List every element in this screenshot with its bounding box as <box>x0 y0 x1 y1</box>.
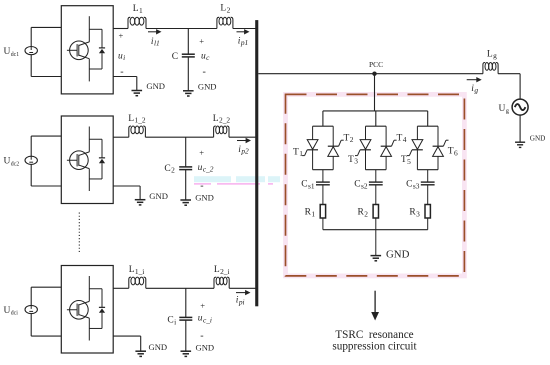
svg-text:T3: T3 <box>348 155 358 166</box>
wire inverter 2 ground stub <box>113 185 140 187</box>
svg-text:GND: GND <box>530 135 546 143</box>
resistor R3 lower lead <box>427 218 429 230</box>
svg-text:TSRC resonance: TSRC resonance <box>335 329 413 341</box>
svg-text:-: - <box>203 67 206 78</box>
wire Udc2 loop left upper <box>30 136 32 156</box>
svg-text:GND: GND <box>149 342 168 352</box>
ground of TSRC <box>371 255 382 257</box>
thyristor T3 <box>365 126 367 139</box>
capacitor Cs1 upper lead <box>322 170 324 182</box>
svg-text:T4: T4 <box>397 133 407 144</box>
inverter module 1 box <box>61 6 113 94</box>
wire Udc1 loop left lower <box>30 55 32 77</box>
svg-text:L2_i: L2_i <box>214 265 230 276</box>
svg-text:R1: R1 <box>305 208 316 219</box>
inductor L1 <box>128 17 130 28</box>
wire inverter 3 ground stub <box>113 335 141 337</box>
wire branch 1 top drop <box>322 111 324 126</box>
wire Udc2 loop left lower <box>30 164 32 186</box>
svg-text:Lg: Lg <box>487 49 497 60</box>
svg-text:Cs1: Cs1 <box>301 180 315 191</box>
svg-text:L1_i: L1_i <box>129 265 145 276</box>
thyristor pair 1 frame top <box>313 125 334 127</box>
arrow current il1 <box>148 31 158 33</box>
svg-text:GND: GND <box>195 192 214 202</box>
wire node 1 mid <box>146 28 217 30</box>
capacitor C lower lead <box>187 57 189 91</box>
diode D1 <box>89 28 102 30</box>
wire inverter 1 output <box>113 28 128 30</box>
capacitor Ci upper lead <box>185 288 187 317</box>
svg-text:T6: T6 <box>448 147 458 158</box>
ground below C <box>183 90 194 92</box>
svg-text:Udc1: Udc1 <box>4 47 20 58</box>
inductor L2 <box>217 17 219 28</box>
svg-text:ip2: ip2 <box>238 145 249 156</box>
wire node 2 mid <box>145 136 213 138</box>
svg-text:T1: T1 <box>293 147 303 158</box>
resistor R2 <box>373 205 378 219</box>
wire branch 2 top drop <box>375 111 377 126</box>
capacitor Ci lower lead <box>185 320 187 351</box>
svg-text:Udci: Udci <box>4 306 19 317</box>
thyristor pair 2 bottom join <box>366 169 387 171</box>
inductor L2_2 <box>214 126 216 137</box>
wire inverter 1 ground stub <box>113 76 137 78</box>
capacitor C2 lower lead <box>185 170 187 200</box>
svg-text:Cs2: Cs2 <box>354 180 368 191</box>
ground of inverter 3 <box>135 350 146 352</box>
svg-text:GND: GND <box>146 81 165 91</box>
thyristor T4 <box>385 126 387 146</box>
capacitor Cs2 lower lead <box>375 185 377 205</box>
svg-text:Ci: Ci <box>167 316 176 327</box>
capacitor Cs3 lower lead <box>427 185 429 205</box>
svg-text:+: + <box>119 30 124 40</box>
svg-text:uc_i: uc_i <box>198 314 212 325</box>
capacitor C upper lead <box>187 29 189 55</box>
wire Ug to ground <box>519 115 521 142</box>
wire Udc1 loop top <box>31 26 61 28</box>
inverter module 3 box <box>61 266 113 354</box>
svg-text:-: - <box>200 331 203 342</box>
thyristor T6 <box>437 126 439 146</box>
transistor Q2 <box>70 151 89 170</box>
svg-text:L2_2: L2_2 <box>213 114 231 125</box>
capacitor Cs1 lower lead <box>322 185 324 205</box>
wire L2 to bus 2 <box>229 136 257 138</box>
thyristor pair 2 frame top <box>366 125 387 127</box>
svg-text:-: - <box>200 180 203 191</box>
transistor Q1 <box>70 41 89 60</box>
inductor Lg <box>483 63 485 74</box>
ground below C2 <box>180 199 191 201</box>
wire Udc2 loop top <box>31 135 61 137</box>
wire Udci loop left lower <box>30 314 32 337</box>
svg-text:GND: GND <box>196 343 215 353</box>
resistor R2 lower lead <box>375 218 377 230</box>
thyristor T1 <box>312 126 314 139</box>
svg-text:+: + <box>199 36 204 46</box>
thyristor T2 <box>332 126 334 146</box>
svg-text:PCC: PCC <box>369 60 383 69</box>
arrow current ig <box>467 79 479 81</box>
TSRC bottom rail <box>323 229 428 231</box>
capacitor C <box>182 53 195 55</box>
diode D3 <box>89 288 102 290</box>
inductor L1_2 <box>129 126 131 137</box>
dashed boundary of TSRC suppression circuit <box>286 94 465 276</box>
svg-text:L2: L2 <box>220 4 230 15</box>
diode D2 <box>89 138 102 140</box>
thyristor pair 1 bottom join <box>313 169 334 171</box>
svg-text:+: + <box>199 148 204 158</box>
wire Udci loop left upper <box>30 287 32 305</box>
resistor R3 <box>425 205 430 219</box>
thyristor pair 3 frame top <box>417 125 438 127</box>
wire Udc1 loop bottom <box>31 76 61 78</box>
wire Udci loop top <box>31 286 61 288</box>
wire Udci loop bottom <box>31 335 61 337</box>
svg-text:uc_2: uc_2 <box>198 163 214 174</box>
svg-text:suppression circuit: suppression circuit <box>332 341 417 353</box>
svg-text:C2: C2 <box>164 164 175 175</box>
inductor L2_i <box>214 277 216 288</box>
wire bus to grid <box>258 73 483 75</box>
svg-text:ip1: ip1 <box>238 36 248 47</box>
dotted continuation between modules <box>78 213 80 255</box>
wire Udc2 loop bottom <box>31 185 61 187</box>
dc source Udc1 <box>25 47 37 55</box>
capacitor Cs2 <box>369 181 383 183</box>
wire bottom rail to ground <box>375 230 377 256</box>
svg-text:Udc2: Udc2 <box>4 157 20 168</box>
svg-text:GND: GND <box>386 248 410 260</box>
thyristor T5 <box>416 126 418 139</box>
arrow current ip1 <box>237 31 247 33</box>
watermark highlight band <box>194 176 231 182</box>
wire inverter 3 output <box>113 287 129 289</box>
capacitor Cs3 <box>421 181 435 183</box>
wire PCC to TSRC <box>374 74 376 111</box>
svg-text:GND: GND <box>149 191 168 201</box>
ac source Ug <box>512 99 528 115</box>
wire Udc1 loop left upper <box>30 27 32 46</box>
svg-text:T2: T2 <box>344 133 354 144</box>
bus bar (PCC bus) <box>255 20 258 306</box>
ground below Ci <box>181 350 192 352</box>
resistor R1 <box>320 205 325 219</box>
svg-text:ui: ui <box>118 51 125 62</box>
capacitor Cs2 upper lead <box>375 170 377 182</box>
svg-text:+: + <box>200 300 205 310</box>
dashed boundary glow of TSRC suppression circuit <box>286 94 465 276</box>
ground of inverter 2 <box>135 199 146 201</box>
svg-text:R3: R3 <box>409 208 420 219</box>
transistor Q3 <box>70 301 89 320</box>
capacitor C2 <box>179 166 192 168</box>
capacitor Cs1 <box>316 181 330 183</box>
wire Lg to Ug <box>498 73 520 75</box>
svg-text:ipi: ipi <box>236 296 245 307</box>
svg-text:ig: ig <box>471 84 478 95</box>
arrow current ip2 <box>237 140 248 142</box>
dc source Udc2 <box>25 156 37 164</box>
svg-text:Cs3: Cs3 <box>406 180 420 191</box>
arrow current ipi <box>236 292 247 294</box>
wire inverter 2 output <box>113 136 129 138</box>
svg-text:il1: il1 <box>151 37 160 48</box>
svg-text:T5: T5 <box>401 155 411 166</box>
node PCC dot <box>372 72 376 76</box>
ground of inverter 1 <box>132 90 143 92</box>
svg-text:GND: GND <box>198 81 217 91</box>
wire node 3 mid <box>146 287 214 289</box>
wire L2 to bus 1 <box>233 28 257 30</box>
resistor R1 lower lead <box>322 218 324 230</box>
dc source Udci <box>25 305 37 313</box>
inverter module 2 box <box>61 116 113 204</box>
capacitor Ci <box>179 316 192 318</box>
svg-text:Ug: Ug <box>499 104 510 115</box>
ground of grid <box>515 141 525 143</box>
svg-text:uc: uc <box>201 51 210 62</box>
wire L2 to bus 3 <box>229 287 256 289</box>
svg-text:L1_2: L1_2 <box>128 114 146 125</box>
TSRC top rail <box>323 110 428 112</box>
svg-text:-: - <box>120 66 123 77</box>
arrow to caption <box>374 291 376 313</box>
wire branch 3 top drop <box>427 111 429 126</box>
capacitor Cs3 upper lead <box>427 170 429 182</box>
thyristor pair 3 bottom join <box>417 169 438 171</box>
capacitor C2 upper lead <box>185 137 187 167</box>
svg-text:C: C <box>172 52 178 62</box>
svg-text:R2: R2 <box>358 208 369 219</box>
inductor L1_i <box>129 277 131 288</box>
svg-text:L1: L1 <box>133 4 143 15</box>
